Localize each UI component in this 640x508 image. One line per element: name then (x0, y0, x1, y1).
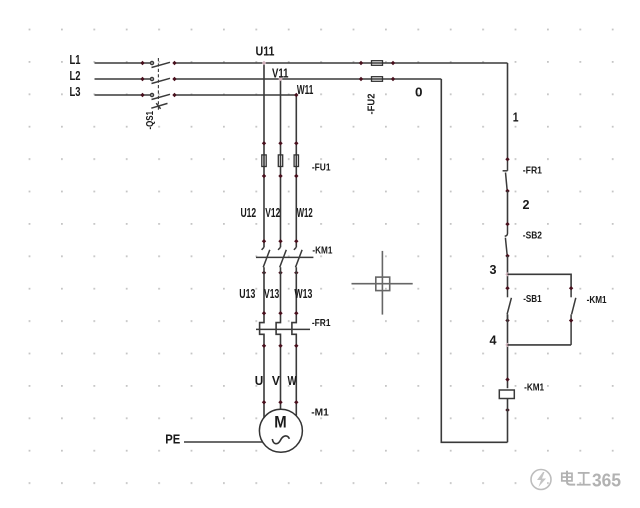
svg-text:-SB2: -SB2 (523, 231, 543, 242)
svg-text:4: 4 (490, 333, 498, 348)
contactor KM1 main contacts (256, 239, 313, 275)
wire L1 right segment to control corner (175, 62, 508, 64)
wire V column middle with FR1 heater detour (276, 267, 280, 409)
wire U column middle with FR1 heater detour (260, 267, 264, 417)
disconnect switch QS1 (140, 58, 176, 110)
svg-text:V13: V13 (264, 286, 279, 301)
node W11 corner (294, 93, 298, 97)
wire control segment to node 3 (507, 256, 509, 288)
svg-text:-M1: -M1 (311, 407, 329, 418)
wire branch from node 3 to KM1 aux (508, 274, 572, 288)
svg-text:V12: V12 (265, 205, 280, 220)
wire W11 column upper (295, 95, 297, 247)
wire L2 left segment (95, 78, 151, 80)
wire L2 right segment to neutral corner (175, 78, 442, 80)
svg-text:-KM1: -KM1 (587, 295, 607, 306)
svg-text:L3: L3 (70, 84, 81, 99)
svg-text:-FR1: -FR1 (523, 166, 543, 177)
svg-text:U13: U13 (239, 286, 255, 301)
wire control main vertical top (507, 63, 509, 159)
svg-text:-SB1: -SB1 (523, 294, 542, 305)
svg-text:U12: U12 (241, 205, 257, 220)
node U11 junction (262, 61, 266, 65)
svg-text:-QS1: -QS1 (145, 111, 156, 130)
svg-text:V11: V11 (272, 66, 289, 81)
wire L3 right segment to W11 (175, 94, 297, 96)
svg-text:L1: L1 (70, 52, 81, 67)
CAD insertion crosshair marker (352, 251, 413, 315)
wire L3 left segment (95, 94, 151, 96)
svg-text:PE: PE (165, 432, 180, 447)
svg-text:W13: W13 (294, 286, 312, 301)
svg-text:-KM1: -KM1 (312, 245, 332, 256)
svg-text:U11: U11 (256, 44, 275, 59)
node 3 (505, 272, 509, 276)
svg-text:1: 1 (513, 110, 519, 125)
svg-text:W11: W11 (297, 82, 314, 97)
svg-text:365: 365 (592, 471, 621, 491)
wire W column middle with FR1 heater detour (292, 267, 296, 415)
wire neutral 0 line down and bottom return (441, 79, 507, 442)
thermal overload FR1 NC contact (control) (503, 157, 510, 193)
svg-text:0: 0 (415, 85, 423, 100)
svg-text:-FU1: -FU1 (312, 162, 331, 173)
svg-text:U: U (255, 373, 264, 388)
watermark text 电工365 (562, 471, 591, 485)
node V11 junction (278, 77, 282, 81)
fuse FU2 (two cartridges) (359, 61, 395, 82)
motor terminal dots (262, 400, 299, 404)
svg-text:M: M (274, 413, 286, 431)
contactor KM1 coil (499, 377, 514, 412)
thermal overload FR1 heater linkage and dots (256, 311, 310, 348)
motor M1 circle (259, 409, 302, 452)
wire control segment 2 (507, 191, 509, 224)
svg-text:W12: W12 (297, 205, 313, 220)
svg-text:2: 2 (523, 197, 530, 212)
wire coil bottom to neutral (507, 399, 509, 443)
svg-text:-FU2: -FU2 (366, 93, 377, 114)
fuse FU1 (three cartridges) (262, 141, 299, 178)
watermark logo icon (531, 470, 551, 490)
wire branch return to node 4 (508, 344, 572, 346)
svg-text:L2: L2 (70, 68, 81, 83)
wire PE to motor (184, 441, 263, 443)
svg-text:W: W (288, 373, 298, 388)
svg-text:3: 3 (490, 262, 497, 277)
node 4 (505, 343, 509, 347)
svg-text:-KM1: -KM1 (524, 383, 544, 394)
start button SB2 NO contact (505, 222, 510, 258)
motor sine wave (272, 436, 289, 444)
wire U11 column upper (263, 63, 265, 247)
wire V11 column upper (280, 79, 282, 247)
wire L1 left segment (95, 62, 151, 64)
stop button SB1 NC contact (505, 286, 511, 323)
svg-text:V: V (272, 373, 280, 388)
contactor KM1 auxiliary NO contact (569, 286, 576, 345)
wire control from SB1 to coil (507, 314, 509, 388)
svg-text:-FR1: -FR1 (312, 318, 331, 329)
